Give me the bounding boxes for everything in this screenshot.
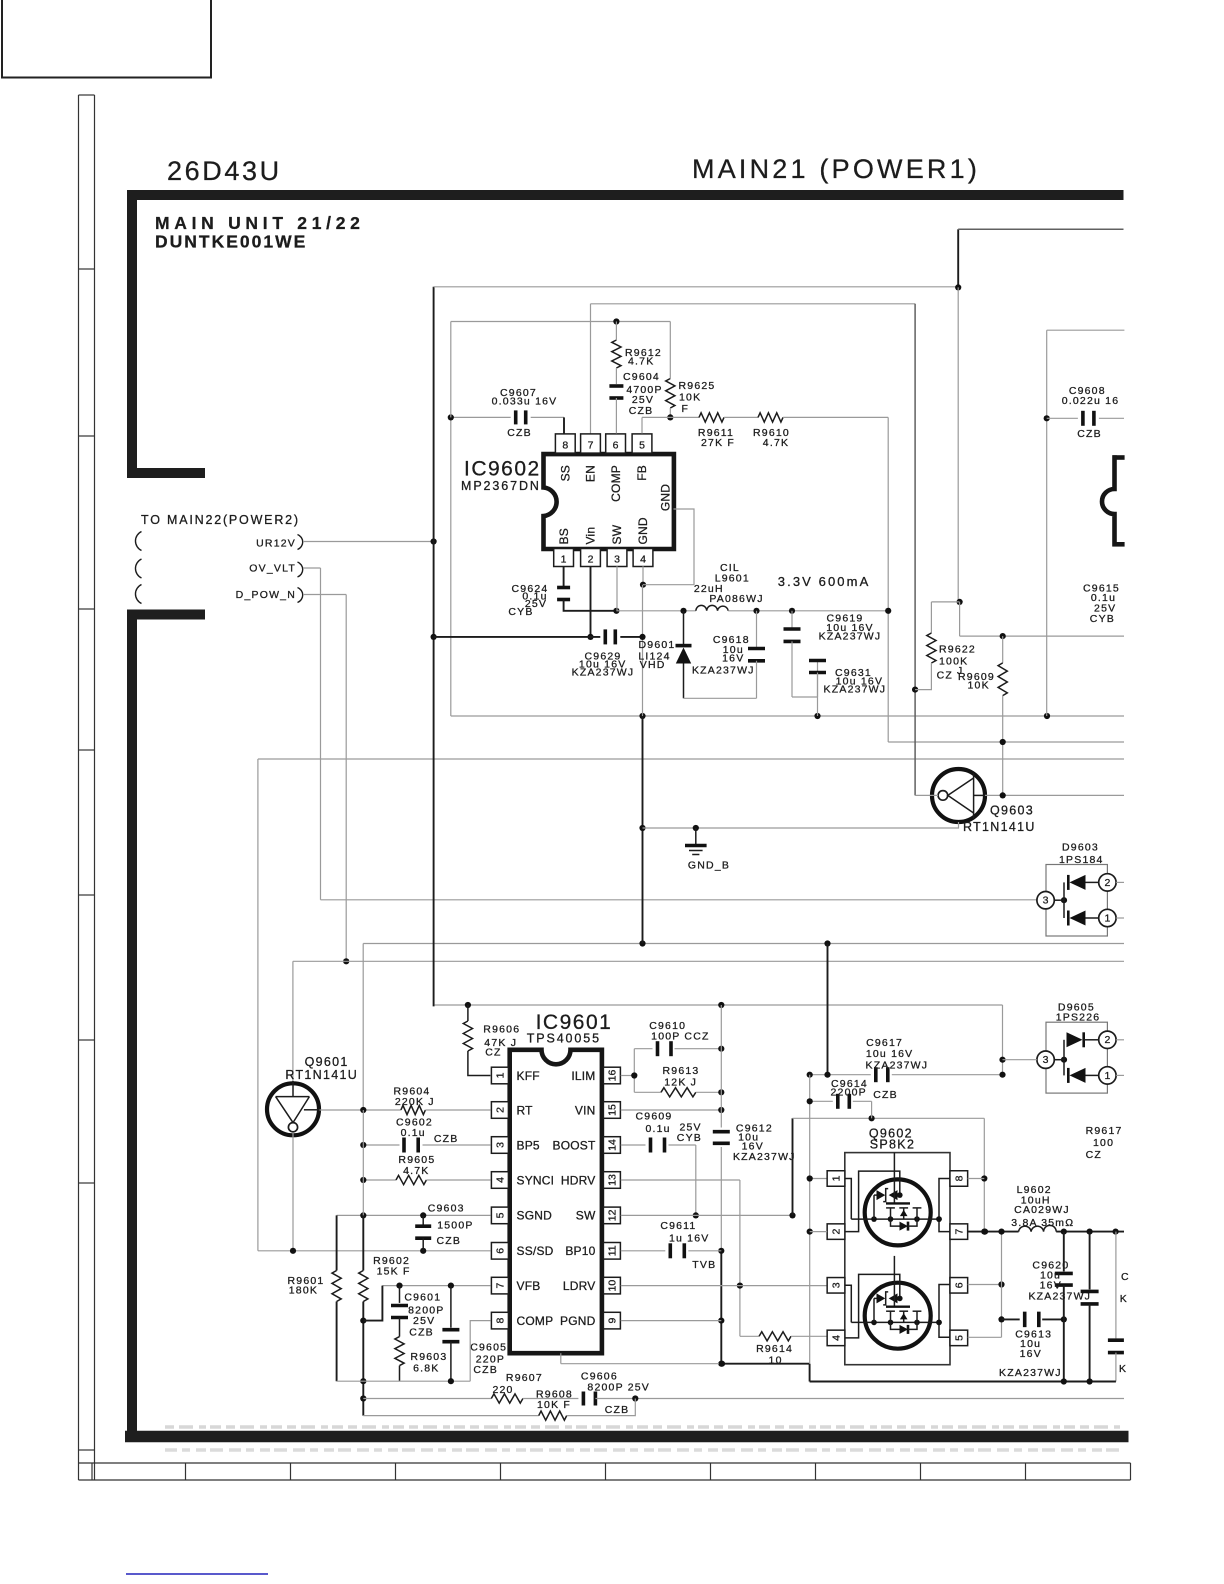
svg-text:SW: SW — [610, 524, 624, 544]
svg-text:K: K — [1120, 1293, 1128, 1305]
svg-text:KZA237WJ: KZA237WJ — [866, 1060, 929, 1072]
svg-text:6: 6 — [494, 1248, 506, 1254]
svg-text:6.8K: 6.8K — [413, 1363, 439, 1375]
svg-text:SP8K2: SP8K2 — [870, 1138, 915, 1152]
svg-text:1u 16V: 1u 16V — [669, 1232, 709, 1244]
svg-text:2: 2 — [1104, 1034, 1110, 1046]
svg-text:4: 4 — [831, 1335, 843, 1341]
svg-text:10: 10 — [606, 1280, 618, 1292]
svg-text:KZA237WJ: KZA237WJ — [819, 631, 882, 643]
svg-text:7: 7 — [494, 1283, 506, 1289]
svg-text:MAIN21 (POWER1): MAIN21 (POWER1) — [692, 154, 980, 184]
svg-text:D9603: D9603 — [1062, 842, 1099, 854]
svg-text:4: 4 — [640, 553, 646, 565]
svg-text:MP2367DN: MP2367DN — [461, 479, 541, 493]
svg-text:KZA237WJ: KZA237WJ — [692, 665, 755, 677]
svg-text:UR12V: UR12V — [256, 538, 296, 550]
svg-text:6: 6 — [953, 1282, 965, 1288]
svg-text:MAIN UNIT 21/22: MAIN UNIT 21/22 — [155, 213, 365, 233]
svg-text:R9606: R9606 — [483, 1024, 520, 1036]
svg-text:BS: BS — [557, 528, 571, 544]
svg-text:16: 16 — [606, 1070, 618, 1082]
svg-text:C9601: C9601 — [404, 1291, 441, 1303]
svg-text:R9613: R9613 — [663, 1065, 700, 1077]
svg-text:C9617: C9617 — [866, 1037, 903, 1049]
svg-text:CZB: CZB — [873, 1089, 898, 1101]
svg-text:3.3V 600mA: 3.3V 600mA — [778, 574, 871, 589]
svg-text:RT1N141U: RT1N141U — [285, 1068, 358, 1082]
svg-text:CZB: CZB — [473, 1364, 498, 1376]
svg-text:R9603: R9603 — [410, 1351, 447, 1363]
svg-text:KZA237WJ: KZA237WJ — [733, 1151, 796, 1163]
svg-text:15: 15 — [606, 1104, 618, 1116]
svg-text:GND_B: GND_B — [688, 860, 730, 872]
svg-text:25V: 25V — [413, 1315, 435, 1327]
svg-text:VIN: VIN — [575, 1103, 596, 1117]
svg-text:CZB: CZB — [434, 1133, 459, 1145]
svg-text:10K: 10K — [679, 392, 701, 404]
svg-text:C9604: C9604 — [623, 371, 660, 383]
svg-text:EN: EN — [584, 465, 598, 482]
svg-text:7: 7 — [588, 439, 594, 451]
svg-text:SS: SS — [559, 465, 573, 481]
svg-text:C9609: C9609 — [636, 1111, 673, 1123]
svg-text:SS/SD: SS/SD — [517, 1244, 554, 1258]
svg-text:OV_VLT: OV_VLT — [249, 563, 296, 575]
svg-text:10u 16V: 10u 16V — [866, 1048, 914, 1060]
svg-text:COMP: COMP — [609, 465, 623, 502]
svg-text:SW: SW — [576, 1209, 596, 1223]
svg-text:CA029WJ: CA029WJ — [1014, 1204, 1070, 1216]
svg-text:8: 8 — [494, 1318, 506, 1324]
svg-text:Vin: Vin — [584, 527, 598, 545]
svg-text:2: 2 — [494, 1107, 506, 1113]
svg-text:VHD: VHD — [640, 659, 666, 671]
svg-text:3.8A 35mΩ: 3.8A 35mΩ — [1011, 1217, 1074, 1229]
svg-text:C9605: C9605 — [470, 1342, 507, 1354]
svg-text:HDRV: HDRV — [561, 1173, 596, 1187]
svg-text:KZA237WJ: KZA237WJ — [572, 667, 635, 679]
svg-text:13: 13 — [606, 1174, 618, 1186]
svg-text:DUNTKE001WE: DUNTKE001WE — [155, 232, 307, 252]
svg-text:CZ: CZ — [1086, 1149, 1102, 1161]
svg-text:26D43U: 26D43U — [167, 156, 282, 186]
svg-text:7: 7 — [953, 1229, 965, 1235]
svg-text:1: 1 — [494, 1072, 506, 1078]
svg-text:10K: 10K — [968, 680, 990, 692]
svg-text:4.7K: 4.7K — [763, 437, 789, 449]
svg-text:16V: 16V — [722, 652, 744, 664]
svg-text:100: 100 — [1093, 1137, 1114, 1149]
svg-text:5: 5 — [639, 439, 645, 451]
svg-text:C9611: C9611 — [660, 1220, 696, 1232]
svg-text:1PS226: 1PS226 — [1056, 1011, 1101, 1023]
svg-text:1: 1 — [1104, 1070, 1110, 1082]
svg-text:6: 6 — [613, 439, 619, 451]
svg-text:Q9601: Q9601 — [305, 1055, 349, 1069]
svg-text:12K J: 12K J — [664, 1076, 697, 1088]
svg-text:4: 4 — [494, 1177, 506, 1183]
svg-text:CZB: CZB — [409, 1327, 434, 1339]
svg-text:CYB: CYB — [677, 1132, 702, 1144]
svg-text:VFB: VFB — [517, 1279, 541, 1293]
svg-text:KZA237WJ: KZA237WJ — [999, 1367, 1062, 1379]
svg-text:R9614: R9614 — [756, 1343, 793, 1355]
svg-text:GND: GND — [659, 484, 673, 511]
svg-text:12: 12 — [606, 1209, 618, 1221]
svg-text:ILIM: ILIM — [571, 1069, 595, 1083]
svg-text:RT: RT — [517, 1103, 534, 1117]
svg-text:10K F: 10K F — [537, 1399, 571, 1411]
svg-text:180K: 180K — [289, 1284, 318, 1296]
svg-text:CYB: CYB — [508, 606, 533, 618]
svg-text:TO MAIN22(POWER2): TO MAIN22(POWER2) — [141, 513, 300, 527]
svg-text:TVB: TVB — [692, 1259, 716, 1271]
svg-text:BOOST: BOOST — [552, 1138, 595, 1152]
svg-text:4.7K: 4.7K — [403, 1165, 429, 1177]
svg-text:SGND: SGND — [517, 1209, 553, 1223]
svg-text:FB: FB — [635, 465, 649, 481]
svg-text:CYB: CYB — [1090, 613, 1115, 625]
svg-text:CZB: CZB — [605, 1404, 630, 1416]
svg-text:BP10: BP10 — [565, 1244, 595, 1258]
svg-text:CZB: CZB — [629, 405, 654, 417]
svg-text:100K: 100K — [939, 655, 968, 667]
svg-text:F: F — [682, 403, 690, 415]
svg-text:5: 5 — [494, 1212, 506, 1218]
svg-text:K: K — [1119, 1363, 1127, 1375]
svg-text:14: 14 — [606, 1139, 618, 1151]
svg-text:0.1u: 0.1u — [401, 1127, 426, 1139]
svg-text:C9603: C9603 — [428, 1203, 465, 1215]
svg-text:5: 5 — [953, 1335, 965, 1341]
svg-text:PA086WJ: PA086WJ — [709, 593, 763, 605]
svg-text:PGND: PGND — [560, 1314, 596, 1328]
svg-text:220: 220 — [492, 1384, 513, 1396]
svg-text:1: 1 — [561, 553, 567, 565]
svg-text:0.022u 16: 0.022u 16 — [1062, 395, 1120, 407]
svg-text:8200P 25V: 8200P 25V — [587, 1382, 650, 1394]
svg-text:3: 3 — [614, 553, 620, 565]
svg-text:100P CCZ: 100P CCZ — [651, 1030, 709, 1042]
svg-text:3: 3 — [831, 1282, 843, 1288]
svg-text:1: 1 — [1104, 912, 1110, 924]
svg-text:1: 1 — [831, 1175, 843, 1181]
svg-text:27K F: 27K F — [701, 437, 735, 449]
svg-text:CZB: CZB — [1077, 428, 1102, 440]
svg-text:TPS40055: TPS40055 — [527, 1031, 601, 1045]
svg-text:C: C — [1121, 1271, 1130, 1283]
svg-text:11: 11 — [606, 1245, 618, 1256]
svg-text:IC9602: IC9602 — [464, 458, 541, 481]
svg-text:2200P: 2200P — [831, 1086, 867, 1098]
svg-text:C9606: C9606 — [581, 1370, 618, 1382]
svg-text:0.033u 16V: 0.033u 16V — [492, 396, 558, 408]
svg-text:LDRV: LDRV — [563, 1279, 596, 1293]
svg-text:RT1N141U: RT1N141U — [963, 820, 1036, 834]
svg-text:1PS184: 1PS184 — [1059, 854, 1104, 866]
svg-text:4.7K: 4.7K — [628, 356, 654, 368]
svg-text:CZB: CZB — [436, 1235, 461, 1247]
svg-text:0.1u: 0.1u — [645, 1123, 670, 1135]
svg-text:R9625: R9625 — [679, 380, 716, 392]
svg-text:KFF: KFF — [517, 1069, 540, 1083]
svg-text:D9601: D9601 — [639, 639, 676, 651]
svg-text:3: 3 — [1043, 895, 1049, 907]
svg-text:8: 8 — [953, 1175, 965, 1181]
svg-text:COMP: COMP — [517, 1314, 554, 1328]
svg-text:2: 2 — [1104, 877, 1110, 889]
svg-text:D_POW_N: D_POW_N — [236, 589, 296, 601]
svg-text:3: 3 — [1043, 1054, 1049, 1066]
svg-text:220K J: 220K J — [395, 1096, 435, 1108]
svg-text:9: 9 — [606, 1318, 618, 1324]
svg-text:3: 3 — [494, 1142, 506, 1148]
svg-text:2: 2 — [831, 1229, 843, 1235]
svg-text:SYNCI: SYNCI — [517, 1173, 555, 1187]
svg-text:CZ: CZ — [485, 1046, 501, 1058]
svg-text:GND: GND — [636, 517, 650, 544]
svg-text:2: 2 — [588, 553, 594, 565]
svg-text:R9622: R9622 — [939, 643, 976, 655]
svg-text:BP5: BP5 — [517, 1138, 540, 1152]
svg-text:CZ: CZ — [937, 670, 953, 682]
svg-text:R9607: R9607 — [506, 1372, 543, 1384]
svg-text:1500P: 1500P — [437, 1220, 473, 1232]
svg-text:15K F: 15K F — [377, 1265, 411, 1277]
svg-text:Q9603: Q9603 — [990, 804, 1034, 818]
svg-text:8: 8 — [562, 439, 568, 451]
svg-text:R9617: R9617 — [1086, 1125, 1123, 1137]
svg-text:16V: 16V — [1020, 1348, 1042, 1360]
svg-text:CZB: CZB — [507, 427, 532, 439]
svg-text:KZA237WJ: KZA237WJ — [824, 684, 887, 696]
